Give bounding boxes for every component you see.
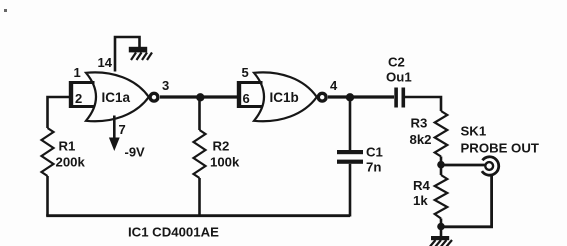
wire: IC1a output to IC1b input bbox=[160, 95, 238, 98]
svg-text:1k: 1k bbox=[413, 193, 428, 208]
wire: bottom rail bbox=[46, 214, 350, 217]
svg-text:8k2: 8k2 bbox=[410, 132, 432, 147]
svg-text:6: 6 bbox=[243, 91, 250, 106]
svg-text:7n: 7n bbox=[366, 160, 381, 175]
svg-text:100k: 100k bbox=[210, 155, 240, 170]
wire: SK1 shell down and left to node D bbox=[441, 175, 492, 227]
wire: node C to SK1 tip bbox=[441, 164, 486, 167]
svg-text:C1: C1 bbox=[366, 145, 383, 160]
svg-text:4: 4 bbox=[330, 78, 338, 93]
svg-text:PROBE OUT: PROBE OUT bbox=[461, 141, 539, 156]
node D junction dot bbox=[437, 223, 445, 231]
resistor R3 bbox=[435, 111, 448, 157]
svg-text:2: 2 bbox=[75, 91, 82, 106]
svg-text:200k: 200k bbox=[56, 155, 86, 170]
svg-text:14: 14 bbox=[98, 55, 113, 70]
gate IC1b output bubble pin 4 bbox=[318, 93, 326, 101]
wire: node B down to C1 bbox=[349, 97, 352, 150]
wire: IC1b output to C2 bbox=[328, 95, 394, 98]
capacitor C1 bbox=[337, 150, 363, 164]
wire: node A down to R2 bbox=[198, 97, 201, 130]
svg-text:R4: R4 bbox=[413, 178, 431, 193]
wire: R3 bottom to node C bbox=[440, 157, 443, 166]
svg-text:3: 3 bbox=[162, 78, 169, 93]
wire: C2 to R3 top bbox=[405, 97, 441, 111]
wire: left feedback rail from IC1a input down to bottom rail bbox=[48, 97, 70, 128]
node A junction dot bbox=[196, 93, 204, 101]
svg-text:SK1: SK1 bbox=[461, 124, 487, 139]
wire: pin 7 stem bbox=[113, 116, 116, 140]
wire: R1 bottom to rail bbox=[46, 176, 49, 216]
ground (pin 14) bbox=[129, 47, 152, 60]
svg-text:R3: R3 bbox=[411, 116, 428, 131]
resistor R2 bbox=[194, 130, 206, 178]
node C junction dot bbox=[437, 161, 445, 169]
svg-text:Ou1: Ou1 bbox=[386, 70, 412, 85]
resistor R1 bbox=[42, 128, 54, 176]
wire: R4 bottom to ground bbox=[440, 219, 443, 237]
gate IC1b input bracket bbox=[239, 83, 263, 107]
node B junction dot bbox=[346, 93, 354, 101]
wire: node C to R4 top bbox=[440, 165, 443, 175]
svg-text:IC1b: IC1b bbox=[270, 90, 299, 105]
gate IC1a input bracket bbox=[71, 83, 95, 107]
op-amp U1: NOR gate IC1b body bbox=[254, 72, 317, 121]
capacitor C2 bbox=[394, 88, 405, 108]
svg-text:1: 1 bbox=[74, 65, 81, 80]
wire: C1 bottom to rail bbox=[349, 164, 352, 217]
svg-text:C2: C2 bbox=[388, 55, 405, 70]
resistor R4 bbox=[435, 175, 448, 219]
svg-text:IC1a: IC1a bbox=[102, 90, 131, 105]
svg-text:R1: R1 bbox=[59, 139, 76, 154]
op-amp U1: NOR gate IC1a body bbox=[86, 72, 149, 121]
svg-text:7: 7 bbox=[119, 122, 126, 137]
gate IC1a output bubble pin 3 bbox=[150, 93, 158, 101]
ground (bottom) bbox=[430, 236, 452, 246]
-9V supply arrow bbox=[109, 138, 120, 152]
svg-text:R2: R2 bbox=[213, 139, 230, 154]
wire: R2 bottom to rail bbox=[198, 178, 201, 216]
connector SK1 tip (inner circle) bbox=[485, 162, 493, 170]
connector SK1 shell (outer arc) bbox=[482, 157, 499, 175]
svg-text:-9V: -9V bbox=[125, 145, 146, 160]
node: scan speck top-left bbox=[4, 9, 7, 12]
wire: pin 14 to ground bbox=[115, 37, 140, 72]
svg-text:5: 5 bbox=[242, 65, 249, 80]
svg-text:IC1 CD4001AE: IC1 CD4001AE bbox=[128, 225, 219, 240]
